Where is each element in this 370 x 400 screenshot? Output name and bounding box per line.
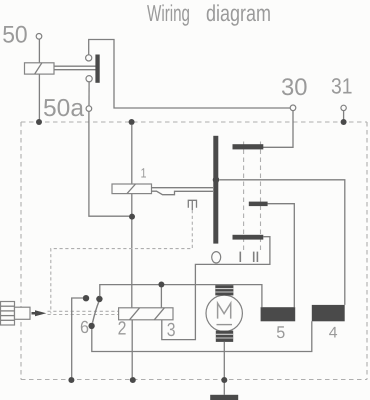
svg-text:1: 1: [141, 166, 147, 181]
svg-text:Wiring: Wiring: [147, 0, 190, 26]
ignition key symbol: [1, 302, 31, 326]
dashed mechanical link key to drive lever: [48, 311, 119, 314]
terminal circle 31: [341, 105, 346, 110]
title Wiring diagram: [147, 0, 271, 26]
wire lower contact to ignition feed and coil 3: [162, 237, 270, 340]
contact circle upper: [86, 55, 92, 61]
junction dot ground rail left: [68, 377, 74, 383]
wire switch 6 common to brush bar 4: [92, 321, 312, 351]
brush bar 4: [312, 305, 345, 321]
key actuation arrow: [32, 312, 37, 315]
terminal circle 30: [290, 105, 296, 111]
motor brush upper: [215, 285, 233, 295]
terminal circle 50: [36, 34, 42, 40]
wire 30 to fixed contact: [263, 110, 293, 147]
svg-text:5: 5: [276, 323, 285, 342]
svg-text:2: 2: [118, 319, 127, 340]
dashed contact guide I: [243, 142, 245, 254]
moving contact bar (top-left): [95, 55, 99, 83]
junction dot relay 1 supply on housing line: [129, 119, 135, 125]
wire solenoid to housing junction: [38, 74, 40, 120]
junction dot 31 on housing: [341, 119, 347, 125]
wire 31 to housing: [343, 110, 345, 119]
svg-text:4: 4: [329, 325, 338, 342]
junction dot feed to coil 3: [158, 282, 164, 288]
wire switch 6 right contact up to feed node: [100, 285, 262, 308]
ignition position I: [239, 252, 241, 262]
ground bar: [210, 395, 238, 400]
wire switch 6 left contact to ground rail: [72, 298, 84, 377]
brush bar 5: [261, 307, 296, 321]
junction dot on housing (50 coil ground): [36, 119, 42, 125]
motor brush lower: [216, 331, 233, 342]
relay 1 coil: [112, 184, 152, 194]
junction dot ground rail motor: [221, 377, 227, 383]
ignition position II: [254, 252, 258, 262]
main moving contact bar: [213, 136, 218, 244]
plunger rod of solenoid: [54, 66, 96, 70]
motor M: [206, 295, 242, 331]
wire middle contact to brush bar 5: [268, 204, 295, 308]
svg-text:6: 6: [80, 317, 89, 337]
junction dot on main contact bar: [213, 177, 220, 184]
junction dot ground rail middle: [130, 377, 136, 383]
svg-text:3: 3: [167, 320, 176, 341]
svg-text:30: 30: [281, 74, 308, 101]
svg-text:diagram: diagram: [206, 0, 271, 26]
solenoid coil (pull-in winding): [25, 63, 55, 74]
wire lower contact to 50a: [88, 81, 90, 106]
junction dot 50a wire joins main wire: [129, 214, 135, 220]
svg-text:50: 50: [2, 21, 28, 48]
actuator cam symbol: [188, 200, 196, 210]
dashed mechanical link cam to key: [51, 210, 193, 313]
svg-text:50a: 50a: [43, 95, 84, 122]
wire 50 terminal to solenoid coil: [38, 39, 40, 63]
terminal circle 50a: [86, 106, 92, 112]
wire contact bar to brush bar 4: [220, 180, 345, 305]
switch 6 blade: [93, 302, 99, 323]
dashed starter housing boundary box: [21, 122, 367, 380]
fixed contact middle: [249, 202, 268, 207]
svg-text:31: 31: [331, 74, 353, 99]
wire upper contact to terminal 30: [89, 40, 291, 109]
wire motor lower brush to ground: [223, 342, 225, 395]
fixed contact lower: [233, 235, 264, 240]
relay 1 actuating rod to main contact bar: [151, 188, 213, 195]
wire 50a down and to relay 1 node: [89, 111, 129, 216]
fixed contact 30 (upper): [233, 144, 264, 149]
ignition position 0: [212, 252, 221, 263]
contact circle lower: [86, 76, 92, 82]
wire coil 2 bottom to ground rail: [131, 320, 133, 377]
switch 6 common dot: [88, 323, 94, 329]
switch 6 left contact dot: [83, 295, 89, 301]
wire main vertical 50a node through relay 1 to relay 2: [131, 125, 133, 308]
wire feed node down to coil 3: [160, 288, 162, 308]
relay coils 2 and 3: [119, 308, 173, 320]
dashed contact guide II: [260, 142, 262, 254]
switch 6 right contact dot: [96, 296, 102, 302]
